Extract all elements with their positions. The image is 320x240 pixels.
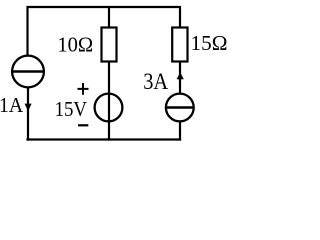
wire middle vertical lower (through voltage source) <box>108 62 110 141</box>
current source I2 bar <box>166 106 193 109</box>
wire middle top stub <box>108 7 110 28</box>
wire bottom horizontal <box>26 138 181 140</box>
voltage source U1 circle <box>95 94 123 122</box>
wire right vertical middle <box>179 62 181 95</box>
label plus sign <box>78 83 89 95</box>
svg-text:1A: 1A <box>0 93 24 117</box>
arrow I2 upward <box>177 72 184 79</box>
svg-text:15Ω: 15Ω <box>191 31 228 55</box>
wire right vertical lower <box>179 122 181 141</box>
current source I1 bar <box>12 70 43 73</box>
svg-text:3A: 3A <box>143 69 168 94</box>
svg-text:15V: 15V <box>55 97 88 121</box>
wire left vertical upper <box>26 6 28 57</box>
wire top horizontal <box>27 6 182 8</box>
resistor R1 10ohm box <box>102 28 117 62</box>
label minus sign <box>78 124 88 126</box>
current source I2 circle <box>166 94 194 122</box>
wire right vertical upper <box>179 6 181 28</box>
current source I1 circle <box>12 56 44 88</box>
resistor R2 15ohm box <box>172 28 187 62</box>
svg-text:10Ω: 10Ω <box>57 32 93 56</box>
wire left vertical lower <box>27 88 29 141</box>
arrow I1 downward <box>25 104 32 112</box>
